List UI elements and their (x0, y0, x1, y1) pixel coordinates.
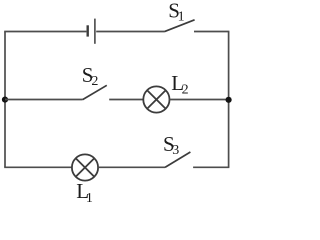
switch S3 blade (165, 152, 190, 167)
wire: bottom-left segment (rail to L1) (4, 166, 72, 168)
svg-text:1: 1 (86, 191, 93, 205)
label L1 (76, 179, 93, 206)
node: left junction (2, 97, 8, 103)
svg-text:2: 2 (182, 82, 189, 97)
label S2 (82, 63, 99, 89)
wire: bottom segment (L1 to S3) (98, 166, 165, 168)
wire: right vertical rail (228, 32, 230, 168)
battery cell (88, 19, 95, 44)
label S3 (163, 132, 179, 158)
wire: middle-right segment (L2 to rail) (170, 99, 230, 101)
svg-text:3: 3 (172, 143, 179, 158)
switch S1 blade (164, 20, 194, 32)
label L2 (171, 71, 188, 98)
lamp L1 (72, 154, 98, 180)
label S1 (168, 0, 184, 25)
switch S2 blade (83, 85, 107, 99)
node: right junction (226, 97, 232, 103)
wire: middle-left segment (rail to S2) (5, 99, 83, 101)
lamp L2 (143, 86, 169, 112)
wire: top-left segment (rail to battery) (4, 31, 86, 33)
wire: top-right segment (S1 to rail) (194, 31, 229, 33)
svg-text:1: 1 (178, 10, 185, 25)
wire: top segment (battery to S1) (96, 31, 164, 33)
wire: left vertical rail (4, 32, 6, 168)
wire: middle segment (S2 to L2) (109, 99, 143, 101)
svg-text:2: 2 (91, 74, 98, 89)
wire: bottom-right segment (S3 to rail) (193, 166, 229, 168)
